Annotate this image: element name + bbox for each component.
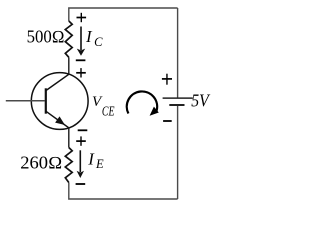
- svg-text:E: E: [95, 157, 104, 171]
- transistor collector diagonal: [46, 74, 69, 90]
- wire base lead: [6, 100, 45, 102]
- minus sign bottom of R_C: [76, 59, 86, 61]
- minus sign below transistor: [78, 129, 88, 131]
- battery V1 long plate: [163, 97, 193, 99]
- minus sign bottom of R_E: [76, 183, 86, 185]
- wire collector stub: [68, 57, 70, 74]
- resistor R_C 500ohm zigzag: [65, 21, 72, 57]
- plus sign battery: [162, 74, 172, 85]
- current arrow I_E: [77, 150, 84, 178]
- transistor emitter diagonal: [46, 111, 69, 128]
- transistor base bar: [45, 88, 47, 113]
- svg-text:5V: 5V: [191, 91, 210, 111]
- svg-text:CE: CE: [102, 104, 115, 119]
- resistor R_E 260ohm zigzag: [65, 148, 72, 183]
- wire top rail: [69, 8, 178, 21]
- wire bottom rail: [69, 183, 178, 200]
- plus sign top of R_C: [77, 13, 87, 22]
- battery V1 short plate: [169, 104, 184, 106]
- svg-text:C: C: [94, 35, 103, 49]
- plus sign top of R_E: [76, 136, 86, 145]
- svg-text:500Ω: 500Ω: [27, 27, 65, 47]
- current arrow I_C: [77, 27, 85, 56]
- transistor emitter arrowhead: [56, 117, 64, 124]
- minus sign battery: [163, 120, 172, 122]
- svg-text:260Ω: 260Ω: [20, 152, 62, 172]
- transistor Q1 circle: [31, 73, 88, 130]
- wire right rail lower: [177, 105, 179, 199]
- wire emitter stub: [68, 128, 70, 148]
- loop current arrow (clockwise): [127, 91, 159, 115]
- plus sign above transistor (V_CE +): [76, 68, 86, 77]
- wire right rail upper: [177, 8, 179, 98]
